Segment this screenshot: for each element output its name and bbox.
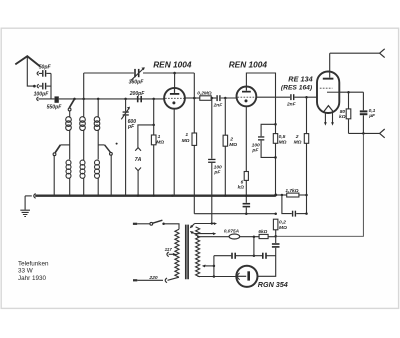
capacitor reservoir right <box>262 253 276 259</box>
svg-text:MΩ: MΩ <box>294 140 302 146</box>
node filament tap <box>213 265 216 268</box>
transformer T1 secondary <box>196 227 200 277</box>
svg-text:0,5: 0,5 <box>279 134 286 140</box>
node <box>213 275 216 278</box>
svg-text:1,7kΩ: 1,7kΩ <box>285 188 298 194</box>
svg-text:100pF: 100pF <box>34 92 50 98</box>
capacitor filament bypass <box>243 203 251 214</box>
wire tube1 anode out <box>185 97 200 99</box>
triode U1 REN1004 <box>164 88 185 109</box>
resistor R4 2MOhm <box>223 98 228 196</box>
svg-text:2: 2 <box>295 134 299 140</box>
svg-text:(RES 164): (RES 164) <box>281 85 313 92</box>
svg-text:MΩ: MΩ <box>182 138 190 144</box>
node heater-filament <box>245 212 248 215</box>
ground <box>20 196 30 217</box>
node 600pF tap <box>124 98 127 101</box>
terminal fork top <box>380 49 385 58</box>
svg-text:550pF: 550pF <box>47 105 63 111</box>
rectifier tube U4 RGN354 <box>236 266 257 287</box>
svg-text:2nF: 2nF <box>213 103 224 109</box>
resistor R5 6kOhm <box>244 172 248 203</box>
svg-text:2: 2 <box>229 136 233 142</box>
switch S3 (right tap) <box>98 145 112 196</box>
capacitor reservoir left <box>214 253 262 259</box>
inductor L3 (coil C top) <box>94 99 100 160</box>
node 1.7k right <box>305 194 308 197</box>
terminal fork bottom <box>380 129 385 138</box>
capacitor cathode bypass <box>282 195 307 217</box>
svg-text:Telefunken: Telefunken <box>18 261 49 268</box>
node anode junction <box>193 97 196 100</box>
svg-text:50pF: 50pF <box>39 65 52 71</box>
jack 7A <box>135 148 141 196</box>
svg-text:MΩ: MΩ <box>279 140 287 146</box>
node HT rail end <box>274 194 277 197</box>
svg-text:MΩ: MΩ <box>229 142 237 148</box>
wire grid line down <box>193 73 195 133</box>
pentode U3 RE134 <box>317 53 339 113</box>
node cap row <box>253 254 256 257</box>
svg-text:0,1: 0,1 <box>369 108 376 114</box>
node detector tap <box>152 124 155 127</box>
node 6k line junction <box>274 235 277 238</box>
node coil B top <box>82 98 85 101</box>
primary bottom lead <box>168 277 180 280</box>
wire rectifier input <box>198 276 237 278</box>
node grid3 leak tap <box>305 96 308 99</box>
wire mains lead <box>133 279 163 281</box>
antenna <box>15 56 40 87</box>
svg-text:1: 1 <box>158 134 161 140</box>
node anode2 branch bottom <box>274 156 277 159</box>
node stray <box>116 143 118 145</box>
wire heater line <box>194 213 275 215</box>
capacitor 100pF <box>42 83 51 90</box>
wire ground lead <box>25 195 32 197</box>
svg-text:pF: pF <box>213 169 221 175</box>
resistor R7 2MOhm <box>304 97 308 213</box>
svg-text:117: 117 <box>165 247 173 252</box>
transformer T1 core <box>186 225 188 280</box>
node <box>362 132 365 135</box>
svg-text:2nF: 2nF <box>286 102 297 108</box>
ground bus <box>35 195 276 197</box>
label Telefunken <box>18 261 49 282</box>
svg-text:pF: pF <box>127 124 135 130</box>
svg-text:RGN 354: RGN 354 <box>258 280 288 289</box>
capacitor 550pF <box>55 96 59 102</box>
svg-text:MΩ: MΩ <box>156 139 164 145</box>
node cap row right <box>305 212 308 215</box>
jack J1 (50pF input) <box>37 72 42 76</box>
inductor L6 (coil C bottom) <box>95 160 100 195</box>
svg-text:80: 80 <box>340 109 346 115</box>
svg-text:pF: pF <box>251 147 259 153</box>
svg-text:REN 1004: REN 1004 <box>153 59 192 69</box>
svg-text:200pF: 200pF <box>129 91 146 97</box>
capacitor 200pF <box>137 96 142 102</box>
node grid-leak tap <box>152 98 155 101</box>
svg-text:kΩ: kΩ <box>339 114 346 120</box>
wire rectifier filter drop <box>253 237 255 256</box>
svg-text:REN 1004: REN 1004 <box>229 60 268 70</box>
wire (cap column join) <box>50 73 52 99</box>
inductor L5 (coil B bottom) <box>80 160 85 195</box>
svg-text:220: 220 <box>148 275 157 281</box>
jack J4 (ground) <box>34 194 36 199</box>
capacitor 600pF (variable) <box>121 99 130 196</box>
svg-text:33 W: 33 W <box>18 268 33 275</box>
svg-text:0,2: 0,2 <box>279 220 286 226</box>
svg-text:µF: µF <box>368 113 376 119</box>
resistor R1 1MOhm (grid leak tube1) <box>151 99 156 196</box>
node grid2 leak tap <box>224 97 227 100</box>
svg-text:kΩ: kΩ <box>238 184 245 189</box>
wire grid bus <box>59 98 164 100</box>
resistor R9 0.2MOhm (filter) <box>273 219 278 243</box>
wire detector tap <box>138 125 154 147</box>
svg-text:0,075A: 0,075A <box>224 229 240 234</box>
node heater-main <box>274 212 277 215</box>
inductor L2 (coil B top) <box>80 73 86 160</box>
wire output lower <box>349 132 380 134</box>
svg-text:7A: 7A <box>135 157 142 163</box>
node coupling junction <box>211 97 214 100</box>
svg-text:0,2MΩ: 0,2MΩ <box>197 91 212 97</box>
jack 220 <box>165 278 167 283</box>
capacitor 2nF (second) <box>290 94 317 100</box>
triode U2 REN1004 <box>237 87 257 107</box>
node fuse-6k junction <box>253 235 256 238</box>
transformer T1 primary <box>175 229 179 277</box>
jack J2 (100pF input) <box>37 84 42 88</box>
wire tube1 filament lead <box>173 109 175 196</box>
node tube1 grid top <box>173 72 176 75</box>
inductor L4 (coil A bottom) <box>66 160 71 195</box>
capacitor 0.1uF <box>360 92 368 133</box>
node coil C top <box>97 98 100 101</box>
switch S1 (antenna coil selector) <box>68 99 74 111</box>
svg-text:360pF: 360pF <box>129 80 145 86</box>
node cathode cap tap <box>281 194 284 197</box>
svg-text:MΩ: MΩ <box>279 225 287 231</box>
wire screen line <box>339 91 363 93</box>
jack J3 (550pF input) <box>37 97 55 101</box>
svg-text:6kΩ: 6kΩ <box>258 229 267 234</box>
wire B+ rail <box>276 133 364 236</box>
tap arrow to winding <box>202 265 214 268</box>
fuse 0.075A <box>197 234 259 239</box>
wire <box>211 97 216 99</box>
capacitor 100pF (anode block) <box>208 98 215 224</box>
resistor R10 6kOhm <box>259 234 276 238</box>
heater winding arrows <box>190 222 217 228</box>
wire rectifier filament left <box>213 256 215 277</box>
wire tube2 filament down <box>245 106 247 171</box>
wire tube2 anode loop <box>246 73 275 124</box>
resistor R3 0.2MOhm <box>200 96 211 101</box>
capacitor 2nF (first) <box>216 95 236 101</box>
inductor L1 (antenna coil A top) <box>66 111 72 160</box>
node bus-switch pivot <box>73 98 76 101</box>
capacitor HT filter <box>258 243 280 276</box>
resistor R8 1.7kOhm <box>276 193 307 197</box>
resistor R6 0.5MOhm <box>273 124 277 195</box>
wire tube1 top lead <box>174 73 176 88</box>
node taps on ground bus <box>137 194 139 196</box>
power switch S4 <box>133 220 179 229</box>
capacitor 50pF <box>42 70 51 77</box>
capacitor 360pF (variable) <box>131 67 145 80</box>
node 80k tap <box>347 91 350 94</box>
svg-text:1: 1 <box>185 132 188 138</box>
resistor R2 1MOhm <box>192 133 197 214</box>
svg-text:Jahr 1930: Jahr 1930 <box>18 275 47 282</box>
capacitor 100pF (tube2 parallel) <box>258 124 276 157</box>
wire anode to speaker jack <box>330 52 380 54</box>
resistor R11 80kOhm <box>346 92 351 133</box>
svg-text:RE 134: RE 134 <box>288 74 312 83</box>
wire tube2 grid out <box>256 96 290 98</box>
wire top tuning line <box>84 72 195 74</box>
node filament-ground <box>245 194 248 197</box>
switch S2 (left tap) <box>53 145 70 196</box>
RE134 filament pins <box>324 113 334 126</box>
tap 117V <box>167 252 176 257</box>
node anode2 branch top <box>274 123 277 126</box>
